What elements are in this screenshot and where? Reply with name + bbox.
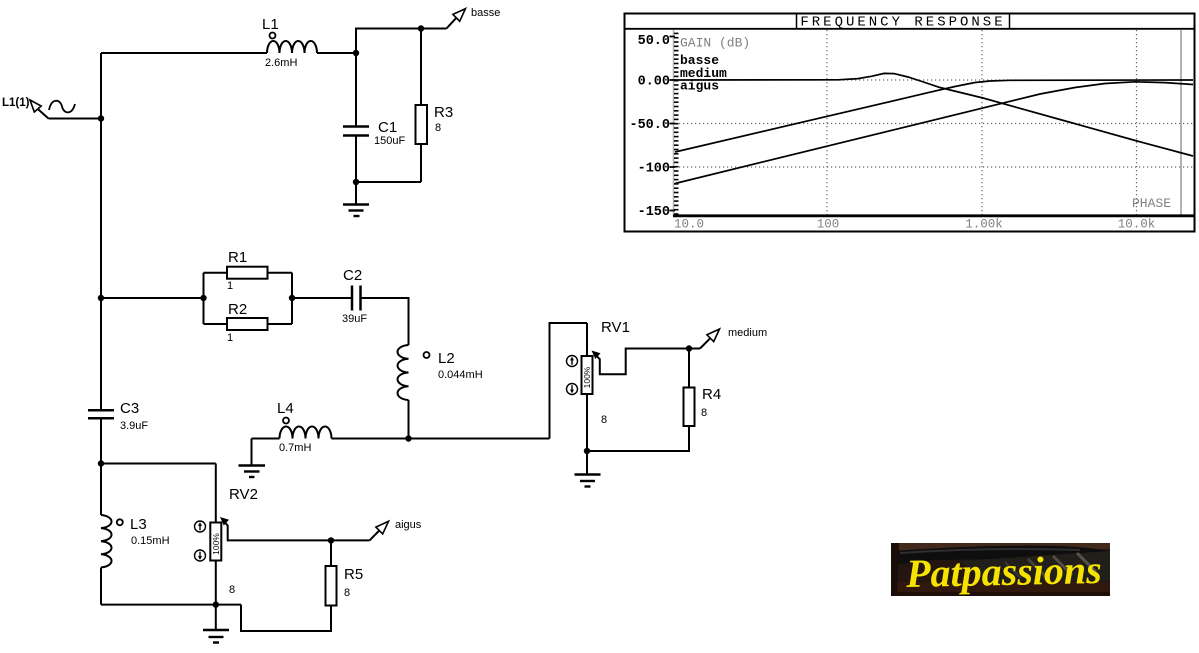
L3 polarity dot	[117, 519, 123, 525]
wire L4 to ground	[251, 439, 253, 466]
wire into RV1 top	[586, 323, 588, 356]
svg-text:8: 8	[435, 122, 441, 134]
svg-text:39uF: 39uF	[342, 313, 367, 325]
svg-text:L4: L4	[277, 400, 294, 417]
wire RV1 wiper to medium node	[600, 349, 689, 375]
wire L4 left end	[252, 438, 280, 440]
L4 polarity dot	[283, 418, 289, 424]
gridline vertical 1kHz	[981, 30, 983, 215]
svg-text:100%: 100%	[582, 366, 592, 388]
output arrow medium	[689, 329, 720, 349]
svg-text:100%: 100%	[211, 533, 221, 555]
gridline horizontal -50dB	[675, 123, 1193, 125]
wire to basse output	[421, 28, 447, 30]
ground below C1	[343, 182, 369, 216]
wire R1R2 left vertical	[203, 273, 205, 324]
RV1 ccw arrow symbol	[567, 384, 578, 395]
wire to R1	[204, 272, 228, 274]
svg-text:1: 1	[227, 332, 233, 344]
wire RV2 bottom	[215, 561, 217, 605]
x axis line	[673, 214, 1194, 217]
node medium	[686, 345, 692, 351]
wire node up and right to basse node	[356, 29, 421, 54]
wire L2 to node	[408, 400, 410, 439]
wire bus to R1R2 block	[101, 297, 204, 299]
wire RV2 wiper to aigus node	[228, 525, 331, 540]
svg-text:FREQUENCY RESPONSE: FREQUENCY RESPONSE	[800, 15, 1005, 31]
svg-text:L1(1): L1(1)	[2, 97, 30, 109]
inductor L4	[280, 427, 332, 439]
wire node to RV1 riser	[409, 438, 550, 440]
capacitor C1	[343, 127, 369, 136]
RV1 wiper arrow	[592, 351, 601, 360]
svg-text:RV1: RV1	[601, 319, 630, 336]
logo key streak 3	[1077, 553, 1096, 572]
gridline vertical 10kHz	[1136, 30, 1138, 215]
wire L1 to node	[317, 52, 356, 54]
RV1 cw arrow symbol	[567, 356, 578, 367]
resistor R1	[227, 267, 268, 279]
svg-text:0.044mH: 0.044mH	[438, 369, 483, 381]
wire block to C2	[292, 297, 351, 299]
chart title separator line	[624, 28, 1195, 30]
wire bottom bus	[101, 604, 241, 606]
gridline vertical 100Hz	[826, 30, 828, 215]
node: source junction	[98, 115, 104, 121]
L2 polarity dot	[424, 352, 430, 358]
node after L1	[353, 50, 359, 56]
resistor R4	[684, 388, 695, 427]
RV2 ccw arrow symbol	[195, 550, 206, 561]
node bus/middle branch	[98, 295, 104, 301]
resistor R3	[416, 105, 428, 144]
svg-text:100: 100	[817, 218, 840, 232]
node bus/bottom branch	[98, 460, 104, 466]
svg-text:8: 8	[229, 584, 235, 596]
wire basse node to R3	[420, 29, 422, 106]
RV2 cw arrow symbol	[195, 521, 206, 532]
svg-text:C3: C3	[120, 400, 139, 417]
svg-text:GAIN (dB): GAIN (dB)	[680, 36, 750, 51]
svg-text:-100: -100	[638, 162, 670, 177]
curve aigus (highpass)	[675, 82, 1193, 184]
inductor L2	[398, 345, 409, 400]
logo tube highlight	[900, 548, 1080, 554]
wire main bus vertical (below C3)	[100, 419, 102, 516]
chart title box right edge	[1009, 14, 1011, 29]
wire bus to RV2	[101, 463, 216, 465]
svg-text:8: 8	[701, 407, 707, 419]
svg-text:10.0: 10.0	[674, 218, 704, 232]
svg-text:aigus: aigus	[395, 519, 422, 531]
capacitor C2	[352, 286, 361, 311]
gridline horizontal 0dB	[675, 79, 1193, 81]
wire R4 bottom	[587, 426, 689, 451]
svg-text:2.6mH: 2.6mH	[265, 57, 297, 69]
svg-text:-150: -150	[638, 205, 670, 220]
node RV1 bottom	[584, 448, 590, 454]
sine symbol of source	[49, 101, 75, 113]
svg-text:R2: R2	[228, 301, 247, 318]
svg-text:R1: R1	[228, 249, 247, 266]
svg-text:1.00k: 1.00k	[965, 218, 1003, 232]
wire R1 to right vertical	[268, 272, 293, 274]
resistor R2	[227, 318, 268, 330]
wire source to bus	[49, 118, 102, 120]
logo black tube shape	[891, 546, 1110, 566]
wire into RV2 top	[215, 464, 217, 523]
wire C2 to corner	[361, 298, 409, 345]
curve medium (bandpass)	[675, 80, 1193, 152]
svg-text:Patpassions: Patpassions	[905, 547, 1103, 596]
potentiometer RV1	[582, 356, 593, 394]
svg-text:1: 1	[227, 280, 233, 292]
logo left dark edge	[891, 543, 899, 596]
wire main bus vertical (below L3)	[100, 568, 102, 605]
svg-text:medium: medium	[728, 327, 767, 339]
svg-text:150uF: 150uF	[374, 135, 405, 147]
svg-text:L3: L3	[130, 516, 147, 533]
output arrow basse	[447, 9, 466, 29]
logo bottom band	[891, 582, 1110, 596]
ground below RV2	[203, 605, 229, 643]
logo key streak 1	[1028, 559, 1047, 578]
gridline horizontal -100dB	[675, 166, 1193, 168]
logo banner background	[891, 543, 1110, 596]
logo bottom band darker line	[891, 592, 1110, 596]
wire R3 bottom to C1 bottom	[356, 181, 421, 183]
wire main bus vertical (top part)	[100, 53, 102, 410]
ground below L4	[239, 466, 266, 478]
wire R3 to bottom	[420, 144, 422, 182]
wire node to C1	[355, 53, 357, 126]
svg-text:0.15mH: 0.15mH	[131, 535, 170, 547]
svg-text:-50.0: -50.0	[629, 118, 670, 133]
svg-text:0.00: 0.00	[638, 75, 670, 90]
wire RV1 bottom	[586, 394, 588, 451]
node aigus	[328, 537, 334, 543]
wire L4 to node	[332, 438, 409, 440]
wire to R2	[204, 323, 228, 325]
svg-text:R3: R3	[434, 104, 453, 121]
node RV2 bottom	[213, 601, 219, 607]
ground below RV1	[575, 451, 601, 487]
y axis major ticks	[670, 37, 676, 211]
chart outer border	[625, 14, 1195, 232]
L1 polarity dot	[270, 33, 276, 39]
node R1R2 right	[289, 295, 295, 301]
svg-text:C2: C2	[343, 267, 362, 284]
potentiometer RV2	[210, 523, 221, 561]
svg-text:50.0: 50.0	[638, 34, 670, 49]
svg-text:R4: R4	[702, 386, 721, 403]
svg-text:3.9uF: 3.9uF	[120, 420, 148, 432]
y axis minor ticks	[674, 33, 679, 214]
wire R2 to right vertical	[268, 323, 293, 325]
wire C1 to gnd node	[355, 136, 357, 183]
inductor L3	[101, 515, 112, 567]
chart title box left edge	[796, 14, 798, 29]
wire aigus node to R5	[330, 540, 332, 566]
node basse	[418, 25, 424, 31]
svg-text:basse: basse	[471, 7, 500, 19]
svg-text:L2: L2	[438, 350, 455, 367]
wire bus to L1	[101, 52, 267, 54]
wire R5 bottom return	[241, 605, 331, 631]
RV2 wiper arrow	[220, 517, 229, 526]
svg-text:L1: L1	[262, 16, 279, 33]
svg-text:C1: C1	[378, 119, 397, 136]
node C1/R3 bottom	[353, 179, 359, 185]
capacitor C3	[88, 410, 114, 418]
svg-text:8: 8	[344, 587, 350, 599]
inductor L1	[267, 41, 317, 53]
svg-text:8: 8	[601, 414, 607, 426]
wire medium node to R4	[688, 349, 690, 388]
svg-text:10.0k: 10.0k	[1118, 218, 1156, 232]
logo banner top brown strip	[891, 543, 1110, 551]
resistor R5	[326, 566, 337, 606]
curve basse (lowpass)	[675, 73, 1193, 156]
node R1R2 left	[200, 295, 206, 301]
svg-text:R5: R5	[344, 566, 363, 583]
sweep end gray line 20kHz	[1180, 30, 1182, 215]
svg-text:PHASE: PHASE	[1132, 196, 1171, 211]
wire R1R2 right vertical	[291, 273, 293, 324]
logo keys area	[960, 551, 1110, 582]
y axis line	[673, 30, 675, 216]
logo key streak 4	[1005, 562, 1021, 578]
source V1 input arrow L1(1)	[30, 100, 49, 119]
svg-text:RV2: RV2	[229, 486, 258, 503]
svg-text:0.7mH: 0.7mH	[279, 442, 311, 454]
wire riser up to RV1	[550, 323, 588, 439]
output arrow aigus	[331, 521, 389, 540]
node L2/L4	[405, 435, 411, 441]
logo key streak 2	[1053, 556, 1072, 575]
